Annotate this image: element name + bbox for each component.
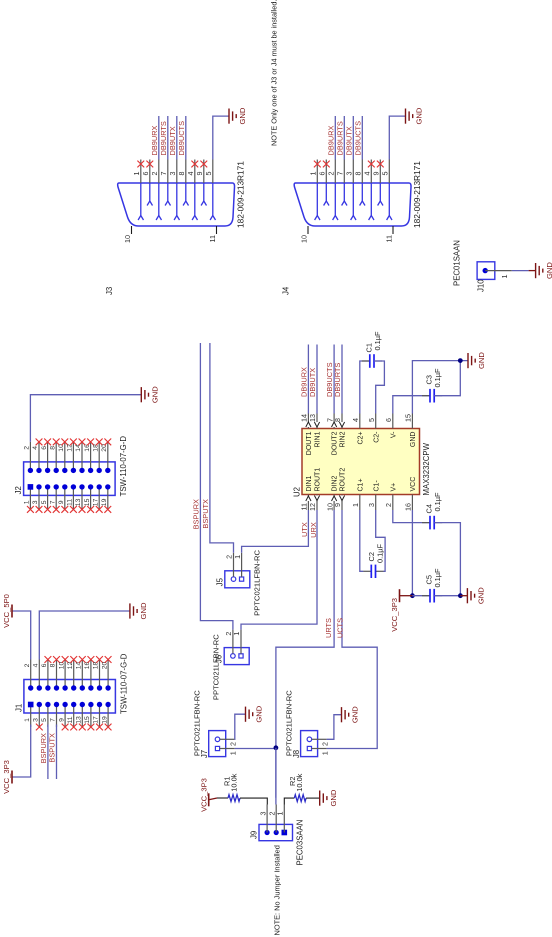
svg-text:6: 6 [384,418,393,422]
svg-text:BSPURX: BSPURX [191,499,200,529]
svg-text:C1+: C1+ [357,478,364,491]
svg-text:3: 3 [258,812,267,816]
svg-text:RIN2: RIN2 [340,431,347,447]
svg-text:15: 15 [84,716,91,724]
svg-text:2: 2 [150,172,159,176]
svg-text:13: 13 [75,498,82,506]
svg-text:9: 9 [372,172,381,176]
svg-text:8: 8 [49,446,56,450]
svg-text:0.1µF: 0.1µF [433,492,442,512]
svg-text:J4: J4 [282,286,291,295]
svg-text:DB9UCTS: DB9UCTS [354,121,363,156]
svg-text:19: 19 [101,716,108,724]
svg-text:11: 11 [208,235,217,242]
svg-text:5: 5 [204,172,213,176]
svg-text:1: 1 [276,812,285,816]
svg-text:2: 2 [24,446,31,450]
svg-text:3: 3 [33,718,40,722]
svg-text:DIN2: DIN2 [332,475,339,491]
svg-text:J5: J5 [215,577,224,586]
svg-text:15: 15 [404,414,413,422]
svg-text:3: 3 [345,172,354,176]
svg-text:VCC_3P3: VCC_3P3 [390,598,399,632]
svg-text:NOTE: No Jumper Installed: NOTE: No Jumper Installed [273,845,282,935]
svg-text:DB9URTS: DB9URTS [333,363,342,397]
svg-text:BSPUTX: BSPUTX [48,733,57,763]
svg-text:URTS: URTS [324,618,333,638]
svg-text:6: 6 [41,446,48,450]
svg-text:C1-: C1- [373,480,380,492]
svg-text:2: 2 [229,742,238,746]
svg-text:4: 4 [351,418,360,422]
svg-text:8: 8 [177,172,186,176]
svg-text:GND: GND [410,432,417,448]
svg-text:DOUT2: DOUT2 [332,431,339,455]
svg-text:DB9UTX: DB9UTX [168,126,177,155]
svg-text:4: 4 [32,446,39,450]
svg-text:4: 4 [33,663,40,667]
svg-text:GND: GND [238,107,247,124]
svg-text:0.1µF: 0.1µF [373,331,382,351]
svg-text:1: 1 [232,632,241,636]
svg-text:2: 2 [384,503,393,507]
svg-text:PPTC021LFBN-RC: PPTC021LFBN-RC [252,549,261,615]
svg-text:RIN1: RIN1 [315,431,322,447]
svg-text:ROUT2: ROUT2 [340,468,347,492]
svg-text:0.1µF: 0.1µF [375,543,384,563]
svg-text:8: 8 [50,663,57,667]
svg-text:TSW-110-07-G-D: TSW-110-07-G-D [119,653,128,714]
svg-text:5: 5 [41,500,48,504]
svg-text:J10: J10 [477,279,486,292]
svg-text:GND: GND [255,705,264,722]
svg-text:GND: GND [477,352,486,369]
svg-text:DB9URTS: DB9URTS [159,121,168,155]
svg-text:4: 4 [186,172,195,176]
svg-text:2: 2 [327,172,336,176]
svg-text:DB9UCTS: DB9UCTS [177,121,186,156]
svg-text:ROUT1: ROUT1 [315,468,322,492]
svg-text:MAX3232CPW: MAX3232CPW [422,442,431,495]
svg-text:VCC: VCC [410,477,417,492]
svg-text:3: 3 [32,500,39,504]
svg-text:V+: V+ [390,483,397,492]
svg-text:GND: GND [139,602,148,619]
svg-text:DOUT1: DOUT1 [306,431,313,455]
svg-text:UCTS: UCTS [335,618,344,638]
svg-text:19: 19 [101,498,108,506]
svg-text:GND: GND [151,386,160,403]
svg-text:1: 1 [309,172,318,176]
svg-text:UTX: UTX [300,522,309,537]
svg-text:GND: GND [351,706,360,723]
svg-text:15: 15 [84,498,91,506]
svg-text:DB9URX: DB9URX [150,125,159,155]
svg-text:GND: GND [415,107,424,124]
svg-text:PPTC021LFBN-RC: PPTC021LFBN-RC [193,690,202,756]
svg-text:7: 7 [336,172,345,176]
svg-text:U2: U2 [293,487,302,497]
svg-text:J3: J3 [105,287,114,295]
svg-text:11: 11 [385,235,394,242]
svg-text:1: 1 [321,751,330,755]
svg-text:6: 6 [41,663,48,667]
svg-text:0.1µF: 0.1µF [433,568,442,588]
svg-text:9: 9 [333,503,342,507]
svg-text:DB9URX: DB9URX [327,125,336,155]
svg-text:17: 17 [92,498,99,506]
svg-text:V-: V- [390,431,397,438]
svg-text:3: 3 [168,172,177,176]
svg-text:17: 17 [93,716,100,724]
svg-text:VCC_5P0: VCC_5P0 [2,594,11,628]
svg-text:GND: GND [329,789,338,806]
svg-text:1: 1 [351,503,360,507]
svg-text:1: 1 [233,555,242,559]
svg-text:11: 11 [67,716,74,723]
svg-text:11: 11 [67,499,74,506]
svg-text:10.0k: 10.0k [229,773,238,791]
svg-text:C2-: C2- [373,431,380,443]
svg-text:J2: J2 [14,486,23,494]
svg-text:8: 8 [354,172,363,176]
svg-text:10.0k: 10.0k [295,773,304,791]
svg-text:7: 7 [49,500,56,504]
svg-text:10: 10 [300,235,309,243]
svg-text:GND: GND [545,262,552,279]
svg-text:PEC01SAAN: PEC01SAAN [453,240,462,286]
svg-text:0.1µF: 0.1µF [433,368,442,388]
svg-text:16: 16 [404,503,413,511]
svg-text:J9: J9 [250,831,259,839]
svg-text:12: 12 [308,503,317,511]
svg-text:3: 3 [367,503,376,507]
svg-text:1: 1 [132,172,141,176]
svg-text:9: 9 [58,718,65,722]
svg-text:10: 10 [123,235,132,243]
svg-text:DIN1: DIN1 [306,475,313,491]
svg-text:VCC_3P3: VCC_3P3 [199,778,208,812]
svg-text:5: 5 [367,418,376,422]
svg-text:PPTC021LFBN-RC: PPTC021LFBN-RC [212,634,221,700]
svg-text:1: 1 [229,751,238,755]
svg-text:5: 5 [41,718,48,722]
svg-text:1: 1 [500,275,509,279]
svg-text:PPTC021LFBN-RC: PPTC021LFBN-RC [285,690,294,756]
svg-text:BSPUTX: BSPUTX [201,499,210,529]
svg-text:6: 6 [141,172,150,176]
svg-text:URX: URX [309,522,318,538]
svg-text:13: 13 [76,716,83,724]
svg-text:GND: GND [477,587,486,604]
svg-text:6: 6 [318,172,327,176]
svg-text:NOTE Only one of J3 or J4 must: NOTE Only one of J3 or J4 must be instal… [270,0,279,146]
svg-text:5: 5 [381,172,390,176]
svg-text:DB9UTX: DB9UTX [308,368,317,397]
svg-text:9: 9 [58,500,65,504]
svg-text:8: 8 [333,418,342,422]
svg-text:C2+: C2+ [357,432,364,445]
svg-text:13: 13 [308,414,317,422]
svg-text:1: 1 [24,718,31,722]
svg-text:7: 7 [159,172,168,176]
svg-text:VCC_3P3: VCC_3P3 [2,760,11,794]
svg-text:J1: J1 [14,704,23,712]
svg-text:TSW-110-07-G-D: TSW-110-07-G-D [119,436,128,497]
svg-text:182-009-213R171: 182-009-213R171 [236,161,246,228]
svg-text:DB9URTS: DB9URTS [336,121,345,155]
svg-text:4: 4 [363,172,372,176]
svg-text:1: 1 [24,500,31,504]
svg-text:2: 2 [24,663,31,667]
svg-text:7: 7 [50,718,57,722]
svg-text:182-009-213R171: 182-009-213R171 [412,161,422,228]
svg-text:9: 9 [195,172,204,176]
svg-text:PEC03SAAN: PEC03SAAN [296,820,305,866]
svg-text:2: 2 [321,742,330,746]
svg-text:DB9UTX: DB9UTX [345,126,354,155]
